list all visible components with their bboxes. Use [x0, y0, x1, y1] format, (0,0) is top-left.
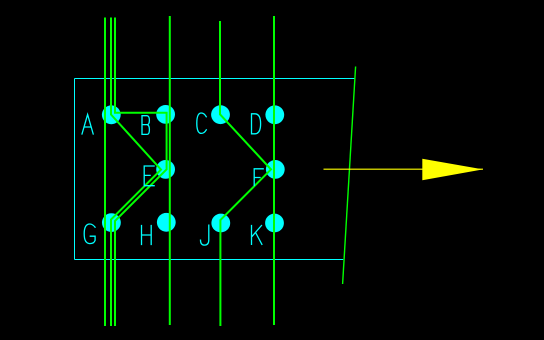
arrow: yellow leader line — [324, 168, 484, 170]
wire: trace into pad C, diagonal to vertex at F, diagonal to pad J, down — [220, 21, 271, 326]
label E — [144, 166, 154, 186]
wire: vertical trace through pads B E H — [169, 16, 171, 325]
label F — [254, 169, 263, 186]
pad C — [211, 105, 230, 124]
label D — [252, 114, 261, 134]
border: cyan frame bottom edge — [75, 259, 344, 261]
pad D — [265, 105, 284, 124]
pad G — [102, 213, 121, 232]
pad J — [211, 214, 230, 233]
wire: bus line 3, bends right to pad B, down to pad E, diagonal to G, down — [115, 18, 167, 327]
label J — [201, 225, 209, 245]
pad F — [266, 160, 285, 179]
arrow: yellow filled arrowhead — [422, 159, 483, 180]
wire: slanted green boundary line at right — [343, 67, 356, 285]
label B — [142, 116, 149, 135]
pad B — [156, 105, 175, 124]
wire: vertical trace 1 (leftmost of 3-line bus) — [104, 18, 106, 327]
wire: bus line 2 through pad A, diagonal to vertex at E, back to pad G, down — [111, 18, 161, 327]
pad K — [265, 214, 284, 233]
pad E — [156, 160, 175, 179]
pad A — [102, 105, 121, 124]
wire: vertical trace through pads D F K — [273, 16, 275, 325]
label A — [82, 115, 93, 135]
border: cyan frame left edge — [74, 79, 76, 260]
label G — [84, 224, 95, 244]
label C — [197, 113, 207, 133]
label K — [252, 226, 262, 245]
pad H — [157, 213, 176, 232]
label H — [142, 226, 152, 245]
border: cyan frame top edge — [75, 78, 355, 80]
